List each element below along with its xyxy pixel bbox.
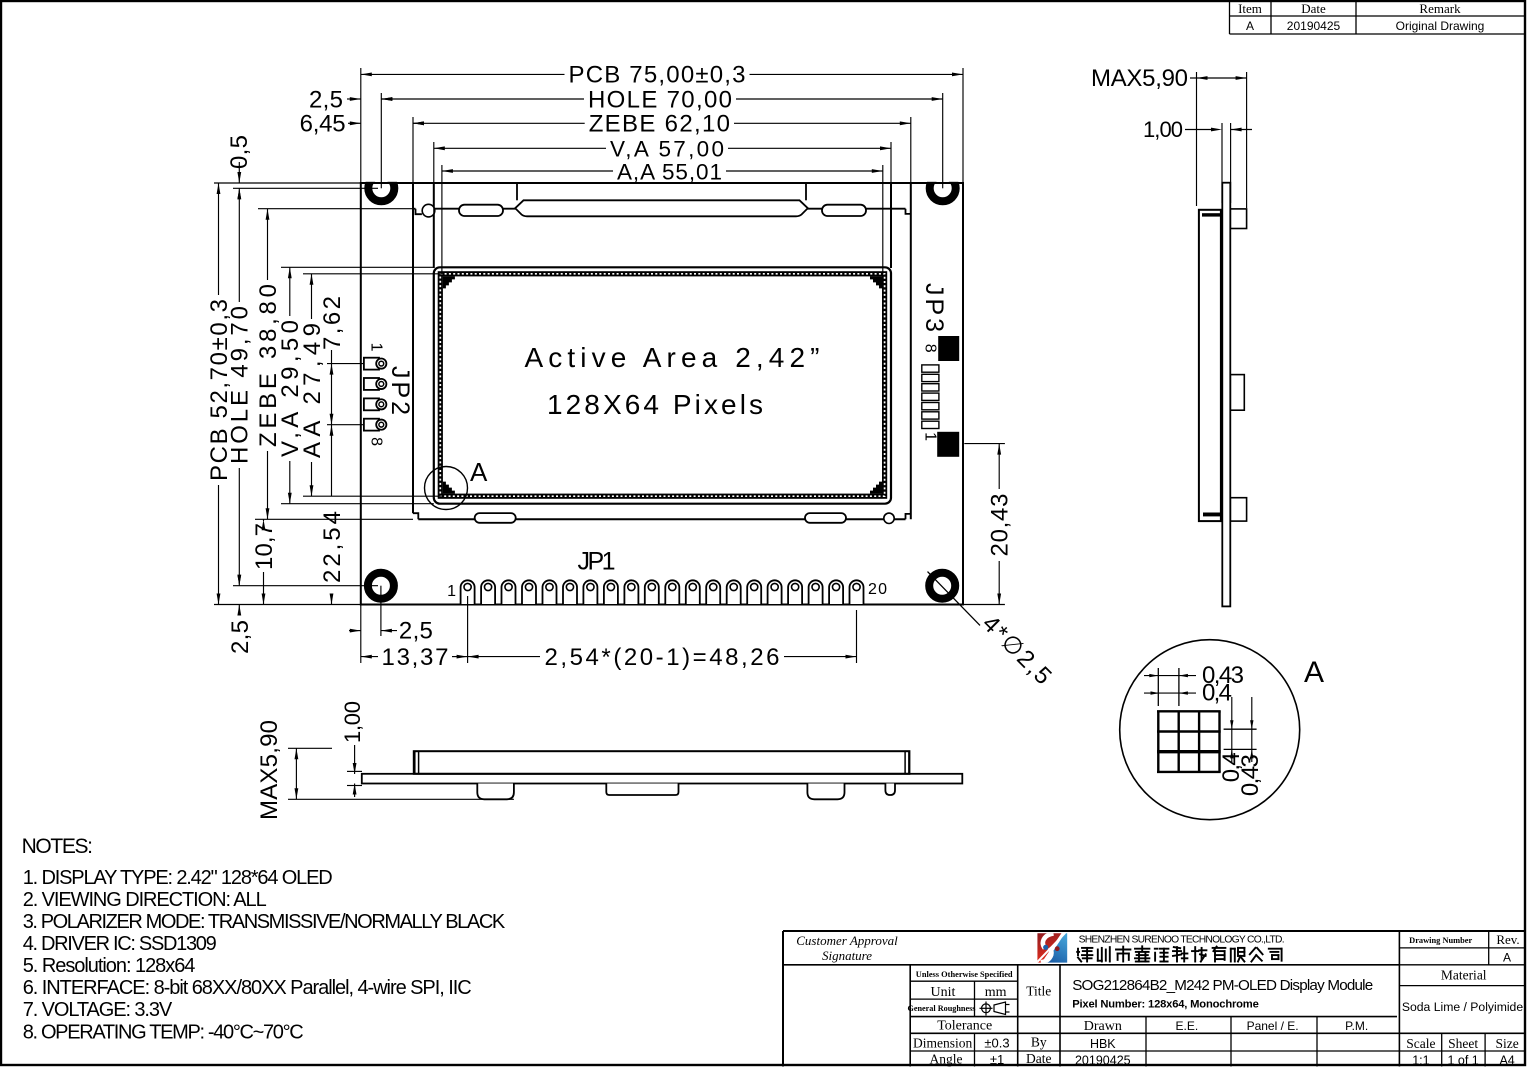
svg-text:MAX5,90: MAX5,90 xyxy=(1091,65,1188,92)
svg-text:JP3: JP3 xyxy=(920,283,948,332)
zebra slot small right xyxy=(822,205,866,216)
svg-text:ZEBE 62,10: ZEBE 62,10 xyxy=(589,111,730,138)
svg-text:PCB 75,00±0,3: PCB 75,00±0,3 xyxy=(569,62,746,89)
JP2 pads xyxy=(364,358,387,431)
svg-text:Sheet: Sheet xyxy=(1448,1036,1478,1051)
svg-text:3. POLARIZER MODE: TRANSMISSIV: 3. POLARIZER MODE: TRANSMISSIVE/NORMALLY… xyxy=(23,911,506,933)
mounting hole bottom-right xyxy=(929,573,955,599)
JP2 pin4 ext stub xyxy=(327,424,364,426)
side view bottom xyxy=(362,751,963,799)
active area dotted border xyxy=(440,274,884,496)
ext line VA right top xyxy=(890,142,892,267)
roughness symbol xyxy=(980,1002,1010,1016)
ext line JP1 pin1 bottom xyxy=(467,596,469,663)
svg-text:1,00: 1,00 xyxy=(1143,117,1183,142)
svg-text:Drawing Number: Drawing Number xyxy=(1409,936,1472,945)
svg-text:13,37: 13,37 xyxy=(382,644,449,671)
detail circle A xyxy=(1120,640,1300,820)
svg-text:mm: mm xyxy=(985,985,1007,1000)
svg-text:JP1: JP1 xyxy=(578,547,616,575)
ext line PCB bottom left xyxy=(214,604,361,606)
detail A marker circle xyxy=(425,467,468,510)
svg-text:Drawn: Drawn xyxy=(1084,1019,1122,1034)
hole mask above pcb edge xyxy=(363,168,400,182)
fpc outline left xyxy=(516,183,518,200)
svg-text:Original Drawing: Original Drawing xyxy=(1396,19,1485,33)
svg-text:±1: ±1 xyxy=(990,1052,1004,1067)
ext line AA left top xyxy=(441,165,443,274)
JP3 pin 1 label xyxy=(921,432,938,441)
svg-text:Panel / E.: Panel / E. xyxy=(1247,1019,1299,1033)
svg-text:Remark: Remark xyxy=(1419,1,1461,16)
svg-text:1: 1 xyxy=(921,432,938,441)
ext line hole TL xyxy=(380,93,382,188)
svg-text:E.E.: E.E. xyxy=(1176,1019,1199,1033)
ext line AA right top xyxy=(882,165,884,274)
svg-text:HOLE 49,70: HOLE 49,70 xyxy=(227,306,254,464)
svg-text:2,5: 2,5 xyxy=(309,86,343,113)
svg-text:A: A xyxy=(1246,19,1254,33)
svg-text:Unit: Unit xyxy=(931,985,956,1000)
dimension 2.5 top xyxy=(309,86,393,113)
svg-text:Angle: Angle xyxy=(930,1052,963,1067)
svg-text:8: 8 xyxy=(921,344,938,353)
ext line VA top left xyxy=(281,266,434,268)
svg-text:6. INTERFACE: 8-bit 68XX/80XX: 6. INTERFACE: 8-bit 68XX/80XX Parallel, … xyxy=(23,977,472,999)
dimension 0.5 top-left xyxy=(226,135,253,199)
JP2 pin 8 label xyxy=(368,437,385,446)
mounting hole bottom-left xyxy=(368,573,394,599)
bottom slot left xyxy=(475,513,516,523)
ext line VA left top xyxy=(433,142,435,267)
svg-text:Size: Size xyxy=(1495,1036,1518,1051)
zebra slot large center xyxy=(515,200,808,216)
svg-text:20,43: 20,43 xyxy=(987,494,1014,557)
dimension 6.45 top xyxy=(300,111,424,138)
revision table xyxy=(1230,1,1526,34)
svg-text:1 of 1: 1 of 1 xyxy=(1447,1054,1478,1068)
svg-text:A: A xyxy=(470,457,488,487)
ext line PCB right top xyxy=(962,68,964,183)
JP3 pin 8 label xyxy=(921,344,938,353)
company name chinese xyxy=(1077,946,1281,961)
dimension 2.54*(20-1)=48.26 xyxy=(468,644,857,671)
ext line AA top left xyxy=(303,273,442,275)
svg-text:Signature: Signature xyxy=(822,948,872,963)
dimension 1.00 bottom view xyxy=(340,701,365,797)
svg-text:Soda Lime / Polyimide: Soda Lime / Polyimide xyxy=(1402,1000,1523,1014)
svg-text:0,43: 0,43 xyxy=(1237,754,1264,796)
ext line ZEBE bottom left xyxy=(255,518,413,520)
svg-text:A: A xyxy=(1304,656,1324,689)
svg-text:20190425: 20190425 xyxy=(1287,19,1341,33)
fpc outline right xyxy=(805,183,807,200)
svg-text:7. VOLTAGE: 3.3V: 7. VOLTAGE: 3.3V xyxy=(23,999,173,1021)
svg-text:10,7: 10,7 xyxy=(251,523,278,570)
svg-text:20190425: 20190425 xyxy=(1075,1054,1131,1068)
dimension 13.37 xyxy=(361,644,468,671)
bottom slot right xyxy=(805,513,846,523)
svg-text:1. DISPLAY TYPE: 2.42" 128*64: 1. DISPLAY TYPE: 2.42" 128*64 OLED xyxy=(23,867,333,889)
svg-text:SOG212864B2_M242 PM-OLED Displ: SOG212864B2_M242 PM-OLED Display Module xyxy=(1072,977,1373,994)
PCB outline front view xyxy=(361,183,963,605)
alignment circle top-left of glass xyxy=(422,204,435,217)
svg-text:SHENZHEN SURENOO TECHNOLOGY CO: SHENZHEN SURENOO TECHNOLOGY CO.,LTD. xyxy=(1079,934,1285,945)
svg-text:Item: Item xyxy=(1238,1,1262,16)
svg-text:A: A xyxy=(1503,951,1511,965)
svg-text:7,62: 7,62 xyxy=(319,296,346,350)
detail dimension 0.4 / 0.43 vertical xyxy=(1218,697,1264,796)
title block texts xyxy=(796,932,1523,1068)
svg-text:Date: Date xyxy=(1301,1,1326,16)
ext line ZEBE top left xyxy=(258,208,413,210)
svg-text:22,54: 22,54 xyxy=(319,511,346,583)
pixel grid 3x3 xyxy=(1157,711,1221,772)
svg-text:2. VIEWING DIRECTION: ALL: 2. VIEWING DIRECTION: ALL xyxy=(23,889,267,911)
inner frame edge right xyxy=(890,183,892,268)
JP3 terminal stripes xyxy=(922,365,939,429)
svg-text:Pixel Number: 128x64, Monochro: Pixel Number: 128x64, Monochrome xyxy=(1072,999,1259,1011)
dimension PCB 52.70±0.3 xyxy=(206,183,233,605)
dimension ZEBE 62.10 xyxy=(413,111,911,138)
svg-text:Unless Otherwise Specified: Unless Otherwise Specified xyxy=(916,970,1013,979)
ext line ZEBE left top xyxy=(412,117,414,183)
svg-text:128X64 Pixels: 128X64 Pixels xyxy=(547,389,763,420)
ext line hole row bottom left xyxy=(233,585,378,587)
zebra slot small left xyxy=(459,205,503,216)
svg-text:A,A 55,01: A,A 55,01 xyxy=(617,159,722,184)
JP3 pad pin8 xyxy=(938,336,959,361)
svg-text:Active Area 2,42”: Active Area 2,42” xyxy=(525,342,820,373)
dimension 7.62 JP2 xyxy=(319,296,346,425)
svg-text:2,5: 2,5 xyxy=(399,617,433,644)
svg-text:2,5: 2,5 xyxy=(227,620,254,654)
ext line JP1 pin20 bottom xyxy=(856,610,858,663)
company logo xyxy=(1032,932,1067,968)
svg-text:±0.3: ±0.3 xyxy=(984,1036,1009,1051)
svg-text:Date: Date xyxy=(1026,1051,1051,1066)
svg-text:1: 1 xyxy=(368,343,385,352)
svg-text:20: 20 xyxy=(868,581,887,598)
svg-text:JP2: JP2 xyxy=(386,366,414,415)
ext line PCB left top xyxy=(360,68,362,183)
JP2 pin 1 label xyxy=(368,343,385,352)
ext line VA bottom left xyxy=(281,503,434,505)
dimension MAX5.90 bottom view xyxy=(256,720,514,820)
svg-text:2,54*(20-1)=48,26: 2,54*(20-1)=48,26 xyxy=(545,644,780,671)
dimension HOLE 49.70 xyxy=(227,188,254,585)
svg-text:Scale: Scale xyxy=(1406,1036,1435,1051)
dimension 1.00 right view xyxy=(1143,117,1252,203)
alignment circle bottom-right of glass xyxy=(884,513,894,523)
svg-text:5. Resolution: 128x64: 5. Resolution: 128x64 xyxy=(23,955,196,977)
svg-text:Tolerance: Tolerance xyxy=(937,1019,992,1034)
svg-text:P.M.: P.M. xyxy=(1345,1019,1368,1033)
ext line ZEBE right top xyxy=(910,117,912,183)
ext line hole TR xyxy=(942,93,944,188)
dimension HOLE 70.00 xyxy=(381,86,942,113)
svg-text:HOLE 70,00: HOLE 70,00 xyxy=(588,86,732,113)
svg-text:A4: A4 xyxy=(1499,1054,1514,1068)
dimension 10.7 xyxy=(251,519,278,604)
dimension AA 27.49 xyxy=(299,274,326,496)
JP1 pins xyxy=(461,580,864,604)
inner frame edge left xyxy=(433,183,435,268)
detail dimension 0.43 / 0.4 horizontal xyxy=(1144,662,1244,707)
svg-text:8: 8 xyxy=(368,437,385,446)
JP2 label xyxy=(386,366,414,415)
svg-text:4. DRIVER IC: SSD1309: 4. DRIVER IC: SSD1309 xyxy=(23,933,217,955)
svg-text:0,4: 0,4 xyxy=(1202,680,1232,707)
dimension V.A 29.50 xyxy=(277,267,304,503)
JP3 label xyxy=(920,283,948,332)
title block grid xyxy=(783,931,1525,1067)
svg-text:Rev.: Rev. xyxy=(1496,932,1519,947)
svg-text:Customer Approval: Customer Approval xyxy=(796,933,898,948)
svg-text:Material: Material xyxy=(1441,968,1487,983)
dimension ZEBE 38.80 xyxy=(255,209,282,520)
dimension 20.43 xyxy=(963,444,1014,605)
svg-text:General Roughness: General Roughness xyxy=(907,1004,975,1013)
svg-text:8. OPERATING TEMP: -40°C~70°C: 8. OPERATING TEMP: -40°C~70°C xyxy=(23,1022,304,1044)
V.A opening rect xyxy=(434,267,891,503)
leader 4x dia 2.5 xyxy=(928,572,1057,690)
dimension MAX5.90 right view xyxy=(1091,65,1247,208)
svg-text:Dimension: Dimension xyxy=(913,1036,972,1051)
dimension 22.54 xyxy=(319,425,346,605)
ext line hole row top left xyxy=(233,187,378,189)
JP3 pad pin1 xyxy=(937,432,959,457)
svg-text:V,A 57,00: V,A 57,00 xyxy=(610,137,724,162)
svg-text:6,45: 6,45 xyxy=(300,111,346,138)
ext line AA bottom left xyxy=(303,495,442,497)
svg-text:Title: Title xyxy=(1026,984,1051,999)
ext line PCB top left xyxy=(214,182,361,184)
svg-text:MAX5,90: MAX5,90 xyxy=(256,720,283,820)
svg-text:NOTES:: NOTES: xyxy=(22,835,93,858)
side view right xyxy=(1199,183,1247,607)
dimension PCB 75.00±0.3 xyxy=(361,62,963,89)
ext line PCB left bottom xyxy=(360,605,362,664)
svg-text:By: By xyxy=(1031,1035,1047,1050)
glass module outline xyxy=(413,183,911,519)
svg-text:1:1: 1:1 xyxy=(1412,1054,1429,1068)
svg-text:1,00: 1,00 xyxy=(340,701,365,743)
svg-text:1: 1 xyxy=(447,583,456,600)
ext line hole BL vertical xyxy=(380,586,382,636)
JP2 pin1 ext stub xyxy=(327,363,364,365)
mounting hole top-right xyxy=(930,175,956,201)
svg-text:HBK: HBK xyxy=(1090,1037,1116,1051)
dimension 2.5 bottom-left xyxy=(227,575,254,654)
dimension A.A 55.01 xyxy=(442,159,883,184)
dimension V.A 57.00 xyxy=(434,137,891,162)
dimension 2.5 bottom hole xyxy=(349,617,433,644)
mounting hole top-left xyxy=(368,175,394,201)
